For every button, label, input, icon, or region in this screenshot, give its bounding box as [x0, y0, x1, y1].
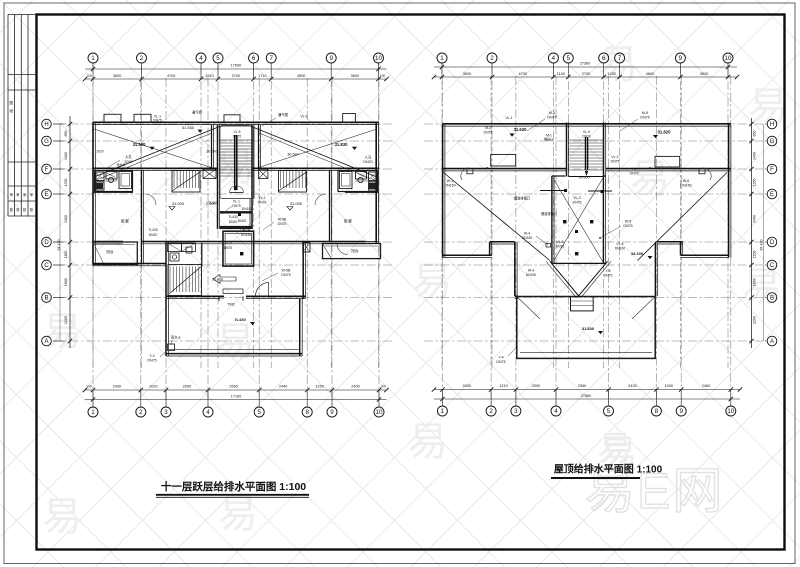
shaft entry doors — [230, 186, 244, 193]
central V valley — [550, 261, 579, 296]
left vertical dimension line — [69, 116, 71, 348]
roof drain box right — [699, 169, 705, 174]
svg-text:H: H — [770, 122, 774, 128]
svg-text:2: 2 — [490, 55, 494, 62]
svg-text:DN20: DN20 — [149, 233, 158, 237]
svg-text:2020: 2020 — [96, 150, 103, 154]
bottom dimension line left plan — [85, 389, 387, 391]
svg-text:4: 4 — [554, 408, 558, 415]
svg-text:B: B — [770, 296, 774, 302]
svg-text:M-2: M-2 — [549, 111, 555, 115]
row bubbles right — [765, 123, 767, 125]
svg-text:DN20: DN20 — [363, 160, 372, 164]
svg-text:2400: 2400 — [753, 215, 757, 223]
axis bubbles bottom right plan — [441, 390, 443, 407]
svg-text:1400: 1400 — [64, 152, 68, 160]
svg-text:3600: 3600 — [113, 74, 121, 78]
svg-text:1150: 1150 — [64, 251, 68, 259]
svg-text:DN75: DN75 — [547, 116, 556, 120]
svg-text:1: 1 — [441, 408, 445, 415]
svg-text:2020: 2020 — [125, 160, 133, 164]
svg-text:30.547: 30.547 — [287, 153, 299, 157]
svg-text:2460: 2460 — [702, 384, 710, 388]
D row wall — [93, 241, 123, 243]
chimney right — [655, 156, 680, 167]
svg-text:2: 2 — [140, 55, 144, 62]
svg-text:2200: 2200 — [64, 316, 68, 324]
svg-text:VL-5: VL-5 — [583, 130, 590, 134]
door arcs — [145, 194, 156, 205]
svg-text:烟道排烟口: 烟道排烟口 — [541, 211, 557, 216]
svg-text:DN20: DN20 — [229, 220, 238, 224]
svg-text:G: G — [770, 139, 775, 145]
terrace walls — [165, 298, 167, 356]
svg-text:31.530: 31.530 — [182, 125, 195, 130]
svg-text:3: 3 — [514, 408, 518, 415]
svg-text:8: 8 — [305, 409, 309, 416]
svg-text:5: 5 — [216, 55, 220, 62]
svg-text:DN75: DN75 — [484, 131, 493, 135]
svg-text:1150: 1150 — [753, 251, 757, 259]
elevator box — [223, 231, 254, 266]
svg-text:VL-5: VL-5 — [557, 240, 564, 244]
terrace railing — [169, 349, 299, 351]
svg-text:DN75: DN75 — [147, 359, 156, 363]
svg-text:卧室: 卧室 — [121, 218, 129, 224]
inner penthouse room — [551, 176, 553, 263]
roof slope down-right — [259, 129, 378, 168]
svg-text:1140: 1140 — [557, 72, 565, 76]
stair treads — [221, 140, 254, 176]
svg-text:DN75: DN75 — [153, 119, 162, 123]
svg-text:易: 易 — [598, 430, 632, 468]
svg-text:4: 4 — [199, 55, 203, 62]
bottom dimension line right plan — [434, 389, 740, 391]
svg-text:C: C — [44, 263, 49, 269]
vent box 2 — [134, 114, 151, 122]
svg-text:2560: 2560 — [229, 385, 237, 389]
right plan lower-left step outline — [443, 254, 492, 256]
svg-text:纸: 纸 — [10, 108, 14, 113]
svg-text:VL-3: VL-3 — [573, 196, 580, 200]
svg-text:3600: 3600 — [351, 74, 359, 78]
svg-text:M-1: M-1 — [485, 126, 491, 130]
lower stair — [168, 265, 202, 296]
duplex stair left — [172, 171, 200, 193]
svg-text:4600: 4600 — [646, 72, 654, 76]
right plan F wall — [443, 168, 567, 170]
svg-text:10: 10 — [376, 409, 383, 416]
row bubbles left — [53, 123, 65, 125]
svg-text:4: 4 — [552, 55, 556, 62]
svg-text:2: 2 — [489, 408, 493, 415]
svg-text:1510: 1510 — [205, 74, 213, 78]
svg-text:A: A — [770, 339, 774, 345]
svg-text:10: 10 — [727, 408, 734, 415]
svg-text:阳台: 阳台 — [351, 248, 359, 253]
svg-text:Y-5: Y-5 — [606, 269, 611, 273]
bathroom right — [338, 171, 378, 192]
axis bubbles top left plan — [92, 63, 94, 79]
svg-text:屋顶给排水平面图 1:100: 屋顶给排水平面图 1:100 — [554, 463, 663, 476]
svg-text:54.430: 54.430 — [760, 240, 764, 251]
svg-text:1250: 1250 — [64, 179, 68, 187]
svg-text:Y-3: Y-3 — [149, 354, 154, 358]
svg-text:1250: 1250 — [753, 179, 757, 187]
svg-text:9: 9 — [329, 55, 333, 62]
svg-text:17100: 17100 — [231, 395, 242, 399]
svg-text:1250: 1250 — [315, 385, 323, 389]
svg-text:D: D — [770, 240, 775, 246]
svg-text:2430: 2430 — [113, 385, 121, 389]
svg-text:M-3: M-3 — [544, 137, 550, 141]
svg-text:通气帽: 通气帽 — [278, 112, 289, 117]
B row wall right plan — [515, 295, 518, 297]
svg-text:3600: 3600 — [700, 72, 708, 76]
svg-text:E: E — [770, 192, 774, 198]
svg-text:4: 4 — [206, 409, 210, 416]
svg-text:2000: 2000 — [532, 384, 540, 388]
svg-text:阳台: 阳台 — [106, 249, 114, 254]
left plan top wall — [93, 121, 379, 123]
svg-text:VL-5: VL-5 — [225, 241, 232, 245]
svg-text:7: 7 — [618, 55, 622, 62]
svg-text:5: 5 — [607, 408, 611, 415]
svg-text:G: G — [44, 139, 49, 145]
svg-text:31.530: 31.530 — [133, 142, 146, 147]
svg-text:W-5B: W-5B — [282, 269, 292, 273]
svg-text:4700: 4700 — [518, 72, 526, 76]
right plan right wall — [728, 124, 730, 258]
svg-text:审: 审 — [23, 192, 26, 197]
svg-text:W-1: W-1 — [447, 179, 454, 183]
svg-text:2700: 2700 — [232, 74, 240, 78]
svg-text:31.820: 31.820 — [658, 130, 671, 135]
svg-text:DN75: DN75 — [258, 201, 267, 205]
svg-text:易: 易 — [748, 85, 788, 129]
svg-text:1400: 1400 — [753, 152, 757, 160]
svg-text:易: 易 — [42, 495, 82, 539]
svg-text:人孔: 人孔 — [125, 154, 133, 159]
elevator inner — [225, 233, 251, 264]
svg-text:2440: 2440 — [279, 385, 287, 389]
chimney left — [491, 155, 516, 167]
top dimension line left plan — [85, 68, 387, 70]
smoke flues — [168, 243, 182, 252]
svg-text:DN75: DN75 — [281, 273, 290, 277]
svg-text:F: F — [770, 167, 774, 173]
svg-text:4500: 4500 — [297, 74, 305, 78]
svg-text:易: 易 — [742, 265, 782, 309]
svg-text:2400: 2400 — [64, 215, 68, 223]
svg-text:图: 图 — [10, 101, 14, 105]
svg-text:850: 850 — [753, 131, 757, 137]
svg-text:100: 100 — [380, 74, 386, 78]
svg-text:3600: 3600 — [463, 72, 471, 76]
svg-text:31.830: 31.830 — [335, 142, 348, 147]
svg-text:9: 9 — [679, 55, 683, 62]
svg-text:易: 易 — [215, 320, 255, 364]
hall block walls — [165, 242, 167, 299]
E row partitions — [93, 191, 133, 193]
svg-text:10: 10 — [725, 55, 732, 62]
svg-text:VL-2: VL-2 — [611, 155, 618, 159]
svg-text:十一层跃层给排水平面图 1:100: 十一层跃层给排水平面图 1:100 — [161, 480, 306, 493]
svg-text:易: 易 — [408, 420, 448, 464]
svg-text:DN75: DN75 — [278, 222, 287, 226]
left plan F wall — [93, 167, 217, 169]
terrace door TM2 — [219, 297, 243, 299]
svg-text:2050: 2050 — [183, 385, 191, 389]
door arc to terrace — [256, 283, 269, 296]
svg-text:4700: 4700 — [167, 74, 175, 78]
svg-text:6: 6 — [252, 55, 256, 62]
svg-text:31.000: 31.000 — [290, 201, 303, 206]
svg-text:31.630: 31.630 — [514, 127, 527, 132]
svg-text:5: 5 — [567, 55, 571, 62]
svg-text:27360: 27360 — [580, 62, 591, 66]
svg-text:1: 1 — [440, 55, 444, 62]
left plan right wall — [375, 122, 377, 243]
svg-text:DN75: DN75 — [623, 224, 632, 228]
svg-text:审: 审 — [30, 192, 33, 197]
B row wall — [166, 295, 224, 297]
svg-text:100: 100 — [380, 385, 386, 389]
svg-text:2700: 2700 — [582, 72, 590, 76]
balcony right — [323, 244, 381, 259]
svg-text:DN75: DN75 — [604, 274, 613, 278]
C row wall — [93, 263, 166, 265]
svg-text:1710: 1710 — [258, 74, 266, 78]
svg-text:DN20: DN20 — [582, 135, 591, 139]
svg-text:DN150: DN150 — [241, 233, 251, 237]
WC fixtures lower-left — [170, 253, 179, 261]
svg-text:W-4: W-4 — [528, 269, 534, 273]
svg-text:DN75: DN75 — [611, 160, 620, 164]
balcony left — [93, 242, 137, 265]
right terrace — [517, 297, 655, 359]
title strip table — [8, 15, 35, 217]
svg-text:DN150: DN150 — [680, 184, 691, 188]
svg-text:F: F — [45, 167, 49, 173]
svg-text:DN100: DN100 — [242, 207, 252, 211]
svg-text:审: 审 — [16, 192, 19, 197]
svg-text:DN150: DN150 — [526, 273, 537, 277]
duplex stair right — [279, 171, 307, 193]
svg-text:DN150: DN150 — [444, 184, 455, 188]
svg-text:1020: 1020 — [149, 385, 157, 389]
svg-text:31.830: 31.830 — [582, 326, 595, 331]
right plan top wall — [443, 123, 731, 125]
svg-text:DN75: DN75 — [630, 172, 639, 176]
svg-text:1000: 1000 — [665, 384, 673, 388]
elevator shaft below stair — [217, 199, 219, 229]
svg-text:2: 2 — [139, 409, 143, 416]
svg-text:W-5: W-5 — [625, 220, 632, 224]
svg-text:2560: 2560 — [578, 384, 586, 388]
roof valley diagonals — [444, 173, 550, 261]
roof slope lines — [94, 126, 222, 178]
svg-text:9: 9 — [330, 409, 334, 416]
top dimension line right plan — [434, 66, 737, 68]
vent box 3 — [343, 114, 356, 123]
svg-text:10: 10 — [375, 55, 382, 62]
svg-text:34.200: 34.200 — [631, 251, 644, 256]
svg-text:VL-2: VL-2 — [259, 196, 266, 200]
svg-text:27560: 27560 — [581, 394, 592, 398]
svg-text:C: C — [770, 263, 775, 269]
svg-text:M-6: M-6 — [642, 111, 648, 115]
kitchen wall — [141, 242, 143, 264]
svg-text:VL-2: VL-2 — [300, 115, 307, 119]
svg-text:DN75: DN75 — [573, 201, 582, 205]
svg-text:易: 易 — [218, 492, 258, 536]
svg-text:17500: 17500 — [231, 64, 242, 68]
svg-text:A: A — [44, 339, 48, 345]
roof drain box left — [467, 169, 473, 174]
svg-text:VL-4: VL-4 — [616, 242, 623, 246]
svg-text:2400: 2400 — [351, 385, 359, 389]
svg-text:B: B — [44, 296, 48, 302]
svg-text:8: 8 — [655, 408, 659, 415]
svg-text:1: 1 — [91, 409, 95, 416]
svg-text:34.600: 34.600 — [579, 176, 590, 180]
svg-text:100: 100 — [86, 385, 92, 389]
roof slope down-left — [94, 129, 211, 168]
axis bubbles top right plan — [441, 63, 443, 77]
svg-text:1600: 1600 — [753, 278, 757, 286]
svg-text:2200: 2200 — [753, 316, 757, 324]
right plan left wall — [442, 124, 444, 258]
svg-text:1210: 1210 — [499, 384, 507, 388]
svg-text:通气帽: 通气帽 — [192, 110, 203, 115]
svg-text:7L900: 7L900 — [206, 202, 216, 206]
svg-text:VL-1: VL-1 — [505, 116, 512, 120]
svg-text:W-1A: W-1A — [242, 228, 251, 232]
bathroom left — [95, 171, 133, 192]
svg-text:3: 3 — [164, 409, 168, 416]
bedroom partition walls — [141, 170, 143, 242]
duct box left — [203, 169, 216, 178]
svg-text:DN75: DN75 — [232, 204, 241, 208]
svg-text:DN75: DN75 — [556, 245, 565, 249]
svg-text:DN75: DN75 — [496, 360, 505, 364]
svg-text:DN100: DN100 — [615, 247, 626, 251]
wall beside stair — [201, 243, 203, 266]
svg-text:1: 1 — [91, 55, 95, 62]
svg-text:雨水斗: 雨水斗 — [171, 335, 182, 340]
axis bubbles bottom left plan — [92, 390, 94, 407]
svg-text:7L430: 7L430 — [234, 317, 246, 322]
svg-text:W-6: W-6 — [683, 179, 690, 183]
svg-text:1230: 1230 — [607, 72, 615, 76]
svg-text:31.000: 31.000 — [172, 201, 185, 206]
svg-text:W-5B: W-5B — [278, 218, 287, 222]
svg-text:DN150: DN150 — [522, 236, 533, 240]
shaft flank walls — [211, 125, 213, 169]
left plan left wall — [92, 122, 94, 264]
svg-text:审: 审 — [10, 192, 13, 197]
stair bulkhead bump — [224, 115, 240, 123]
central stair shaft — [217, 125, 219, 200]
svg-text:7: 7 — [269, 55, 273, 62]
svg-text:易: 易 — [42, 310, 82, 354]
svg-text:2430: 2430 — [463, 384, 471, 388]
stair center line — [234, 135, 236, 190]
rain leader box — [168, 344, 175, 351]
svg-text:30.547: 30.547 — [206, 150, 218, 154]
svg-text:TM2: TM2 — [227, 303, 235, 307]
vent box 1 — [104, 114, 121, 122]
svg-text:31.900: 31.900 — [212, 278, 223, 282]
svg-text:DN75: DN75 — [640, 116, 649, 120]
svg-text:54.430: 54.430 — [57, 240, 61, 251]
svg-text:TL430: TL430 — [228, 215, 238, 219]
svg-text:E: E — [44, 192, 48, 198]
svg-text:W-4: W-4 — [524, 232, 530, 236]
svg-text:100: 100 — [86, 74, 92, 78]
svg-text:Y-1: Y-1 — [632, 167, 637, 171]
svg-text:9: 9 — [679, 408, 683, 415]
right vertical dimension line — [751, 118, 753, 348]
svg-text:1600: 1600 — [64, 278, 68, 286]
svg-text:DN75: DN75 — [233, 134, 242, 138]
svg-text:DN20: DN20 — [238, 219, 247, 223]
svg-text:Y-4: Y-4 — [498, 356, 503, 360]
svg-text:6: 6 — [602, 55, 606, 62]
duct box right — [258, 169, 268, 178]
duct at D — [303, 243, 310, 253]
right plan lower-right step outline — [681, 254, 729, 256]
svg-text:烟道排烟口: 烟道排烟口 — [514, 196, 530, 201]
svg-text:2430: 2430 — [628, 384, 636, 388]
svg-text:洗衣机: 洗衣机 — [116, 162, 125, 167]
svg-text:5: 5 — [257, 409, 261, 416]
svg-text:D: D — [44, 240, 49, 246]
svg-text:TL430: TL430 — [148, 228, 158, 232]
roof stair shaft — [566, 123, 568, 177]
svg-text:H: H — [44, 122, 48, 128]
svg-text:易: 易 — [630, 157, 670, 201]
svg-text:卧室: 卧室 — [344, 218, 352, 224]
svg-text:DN75: DN75 — [224, 246, 233, 250]
axis grid lines — [53, 65, 765, 406]
svg-text:人孔: 人孔 — [364, 155, 372, 160]
svg-text:850: 850 — [64, 131, 68, 137]
